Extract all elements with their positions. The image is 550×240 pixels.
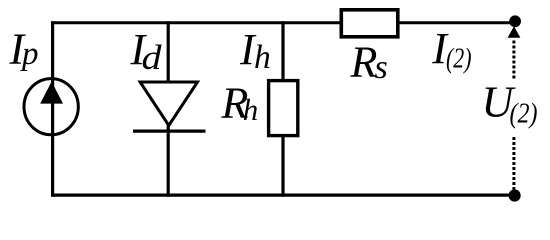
current source arrow bbox=[40, 82, 63, 104]
voltage dotted line U(2) bbox=[512, 41, 515, 191]
wire left vertical bbox=[51, 21, 54, 197]
terminal node top (2) bbox=[509, 15, 521, 27]
wire diode branch top bbox=[167, 21, 170, 82]
wire Rh branch bottom bbox=[281, 136, 284, 197]
voltage arrowhead U(2) bbox=[508, 26, 521, 38]
wire diode branch bottom bbox=[167, 126, 170, 197]
wire bottom horizontal bbox=[51, 194, 514, 197]
resistor Rh body bbox=[269, 81, 298, 136]
svg-text:h: h bbox=[243, 92, 258, 127]
terminal node bottom (2) bbox=[508, 189, 520, 201]
resistor Rs body bbox=[341, 10, 398, 37]
label Rh bbox=[221, 79, 259, 128]
wire top-left horizontal bbox=[51, 21, 342, 24]
svg-text:R: R bbox=[350, 38, 378, 87]
svg-text:(2): (2) bbox=[510, 97, 538, 129]
svg-text:(2): (2) bbox=[446, 43, 472, 75]
diode D1 cathode bar bbox=[133, 130, 206, 133]
svg-text:p: p bbox=[20, 36, 39, 72]
label Id bbox=[130, 25, 163, 77]
svg-text:d: d bbox=[142, 38, 163, 77]
label Ih bbox=[239, 25, 271, 76]
wire top-right horizontal bbox=[398, 21, 514, 24]
wire Rh branch top bbox=[281, 21, 284, 81]
svg-text:h: h bbox=[254, 39, 271, 76]
svg-text:s: s bbox=[375, 49, 388, 86]
label I(2) bbox=[431, 24, 471, 75]
current source U1 circle bbox=[24, 79, 78, 135]
label Ip bbox=[9, 25, 39, 74]
diode D1 triangle bbox=[140, 82, 197, 126]
label Rs bbox=[350, 38, 388, 87]
label U(2) bbox=[482, 78, 538, 130]
